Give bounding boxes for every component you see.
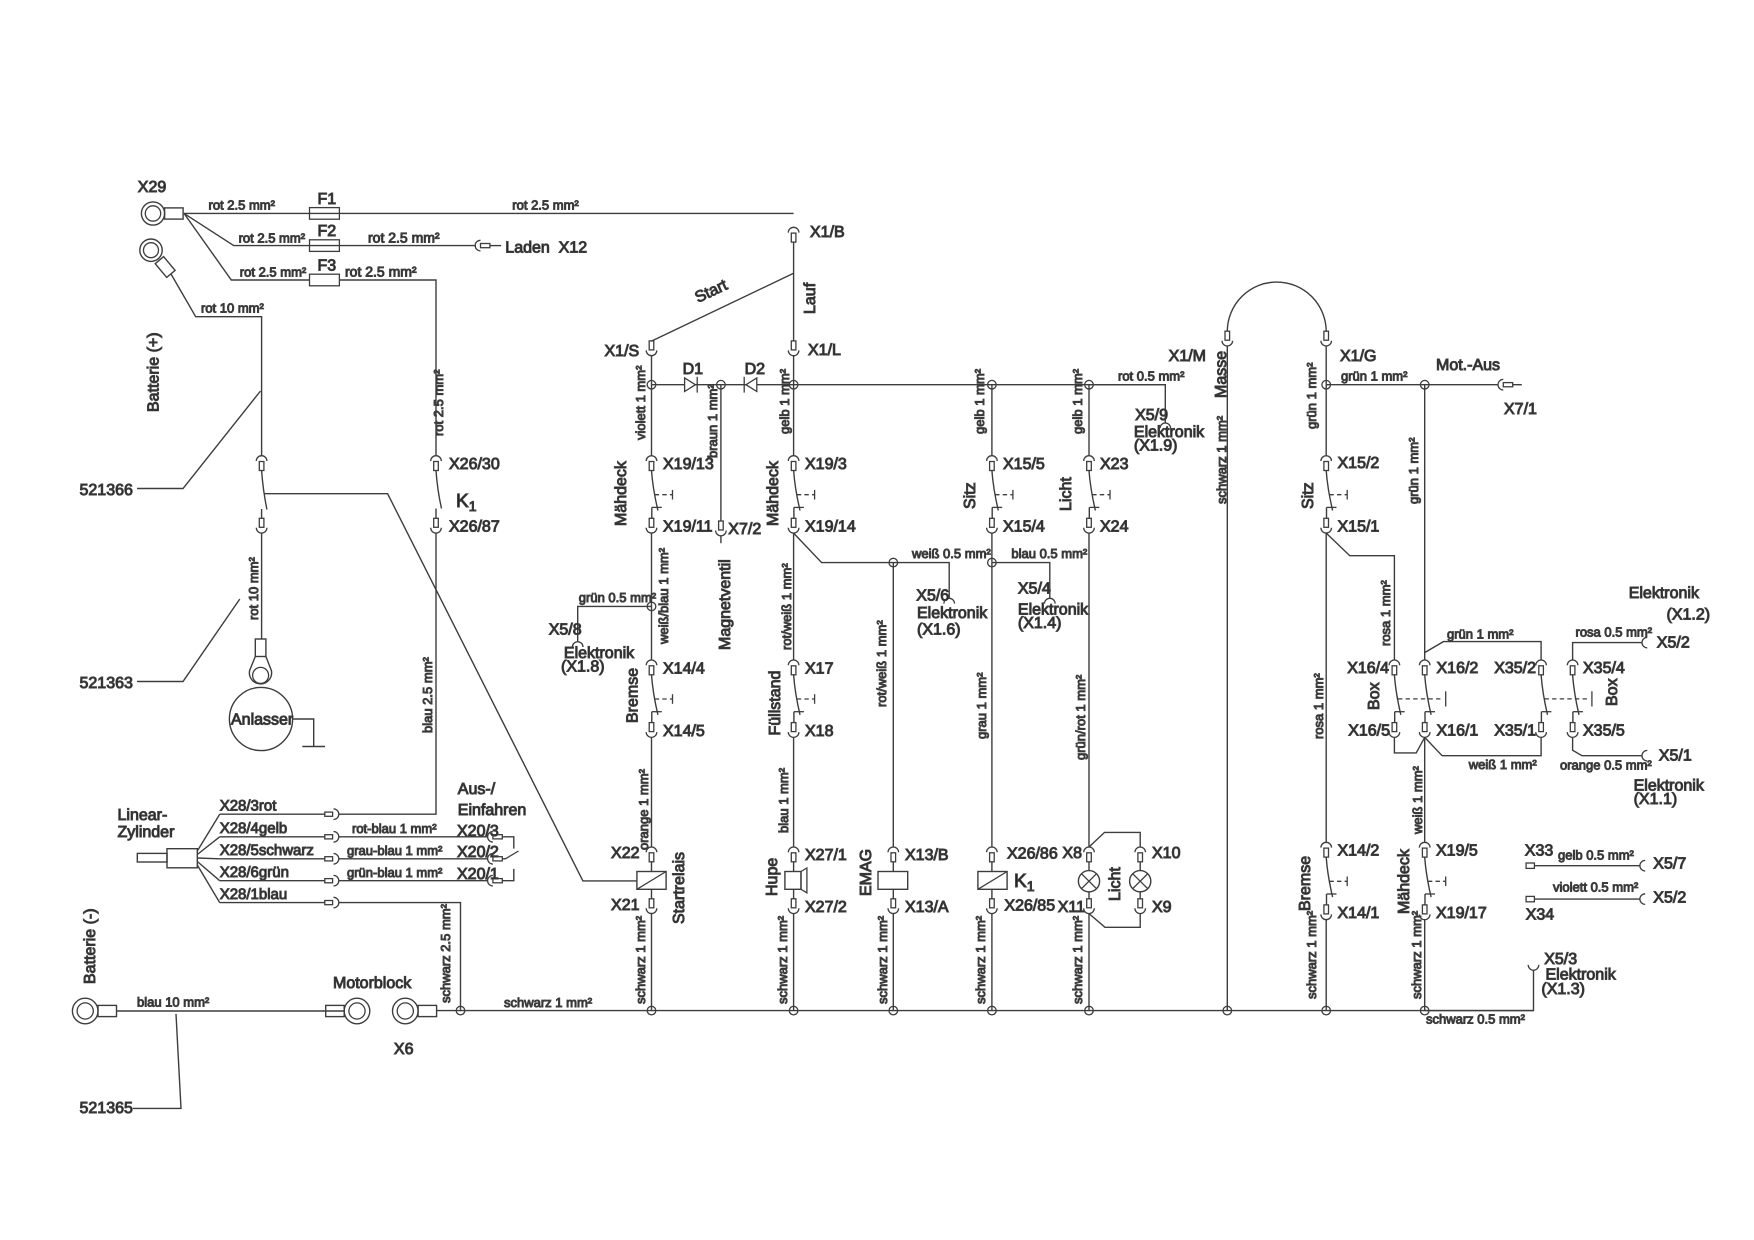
wire schwarz 1 mm2 xyxy=(1088,914,1090,1011)
Linear-Zylinder actuator xyxy=(137,853,167,862)
svg-text:X29: X29 xyxy=(138,179,167,196)
svg-text:rot 10 mm²: rot 10 mm² xyxy=(246,556,261,620)
wire gruen 1 mm2 to X16/2 xyxy=(1424,385,1426,660)
wire gruen 0.5 mm2 to X5/8 xyxy=(578,606,652,641)
svg-text:grün 1 mm²: grün 1 mm² xyxy=(1341,369,1408,384)
svg-text:(X1.3): (X1.3) xyxy=(1541,981,1585,998)
svg-text:Batterie (-): Batterie (-) xyxy=(82,908,99,984)
svg-text:X35/5: X35/5 xyxy=(1583,723,1625,740)
ring terminal X6 xyxy=(393,998,419,1024)
svg-text:X21: X21 xyxy=(611,897,640,914)
terminal X5/2 Elektronik X1.2 xyxy=(1642,637,1647,648)
wire rot/weiss 1 mm2 down to X17 xyxy=(793,533,795,660)
connector X20/3 xyxy=(488,832,493,843)
svg-text:orange 1 mm²: orange 1 mm² xyxy=(636,768,651,850)
lamp X10/X9 xyxy=(1139,862,1141,871)
svg-text:F2: F2 xyxy=(318,223,337,240)
relay contact K1 xyxy=(436,471,442,509)
switch Box X35/4 X35/5 xyxy=(1567,660,1578,665)
svg-text:X1/B: X1/B xyxy=(810,224,845,241)
svg-text:Magnetventil: Magnetventil xyxy=(717,559,734,650)
wire weiss 1 mm2 down to X19/5 xyxy=(1424,737,1426,842)
svg-text:(X1.6): (X1.6) xyxy=(917,622,961,639)
svg-text:Mot.-Aus: Mot.-Aus xyxy=(1436,357,1500,374)
svg-text:X26/30: X26/30 xyxy=(449,456,500,473)
fuse F2 xyxy=(310,240,340,252)
wire and pin X28/4gelb xyxy=(197,837,219,855)
bend X1/M to X1/G xyxy=(1227,282,1326,331)
svg-text:rosa 1 mm²: rosa 1 mm² xyxy=(1378,580,1393,646)
switch Sitz X15/2 X15/1 xyxy=(1321,456,1332,461)
wire X1/L to bus xyxy=(793,356,795,385)
svg-text:Box: Box xyxy=(1604,678,1621,706)
svg-text:X34: X34 xyxy=(1526,907,1555,924)
svg-text:schwarz 1 mm²: schwarz 1 mm² xyxy=(775,915,790,1004)
wire schwarz 1 mm2 xyxy=(793,914,795,1011)
connector X1/L xyxy=(791,341,796,350)
wire gelb 1 mm2 xyxy=(991,385,993,456)
svg-text:X26/86: X26/86 xyxy=(1007,846,1058,863)
wire weiss 1 mm2 to X35/1 xyxy=(1425,737,1541,755)
svg-text:X18: X18 xyxy=(805,723,834,740)
wire X1/G to bus xyxy=(1325,346,1327,385)
svg-text:X19/17: X19/17 xyxy=(1436,905,1487,922)
contact pin below starter switch xyxy=(259,518,264,527)
svg-text:X15/1: X15/1 xyxy=(1338,519,1380,536)
wire gruen 1 mm2 down xyxy=(1325,385,1327,456)
wire X1/S to bus xyxy=(651,356,653,385)
wire weiss/blau 1 mm2 xyxy=(651,533,653,606)
connector X1/S xyxy=(649,341,654,350)
svg-text:X19/5: X19/5 xyxy=(1436,843,1478,860)
svg-text:X20/1: X20/1 xyxy=(457,866,499,883)
svg-text:X16/2: X16/2 xyxy=(1437,660,1479,677)
svg-text:X5/7: X5/7 xyxy=(1653,856,1686,873)
dashed link left Box xyxy=(1398,698,1441,700)
connector X22 xyxy=(646,847,657,852)
svg-text:X14/5: X14/5 xyxy=(663,723,705,740)
lamp branch top wire xyxy=(1089,832,1140,847)
svg-text:521365: 521365 xyxy=(80,1100,133,1117)
svg-text:X28/3rot: X28/3rot xyxy=(220,797,278,814)
svg-text:weiß 1 mm²: weiß 1 mm² xyxy=(1410,765,1425,835)
wire schwarz 1 mm2 xyxy=(1424,920,1426,1011)
svg-text:rot 2.5 mm²: rot 2.5 mm² xyxy=(512,198,579,213)
svg-text:Batterie (+): Batterie (+) xyxy=(146,332,163,412)
junction bus at violett column xyxy=(647,380,656,389)
ground bus schwarz 1 mm2 xyxy=(437,1010,1534,1012)
svg-text:X22: X22 xyxy=(611,845,640,862)
svg-text:rot 0.5 mm²: rot 0.5 mm² xyxy=(1118,369,1185,384)
svg-text:rot-blau 1 mm²: rot-blau 1 mm² xyxy=(352,821,437,836)
switch Maehdeck X19/3 X19/14 xyxy=(788,456,799,461)
svg-text:Mähdeck: Mähdeck xyxy=(765,460,782,526)
wire F3 to X26/30 rot 2.5 mm2 xyxy=(339,280,436,456)
wire schwarz 1 mm2 xyxy=(1325,920,1327,1011)
switch Sitz X15/5 X15/4 xyxy=(987,456,998,461)
svg-text:X14/4: X14/4 xyxy=(663,660,705,677)
terminal X5/6 Elektronik X1.6 xyxy=(944,598,955,603)
wire X28/6 to X20/1 gruen-blau 1 mm2 xyxy=(339,880,488,882)
svg-text:X5/9: X5/9 xyxy=(1135,407,1168,424)
svg-text:gelb 1 mm²: gelb 1 mm² xyxy=(777,368,792,434)
svg-text:X7/1: X7/1 xyxy=(1504,401,1537,418)
svg-text:X19/3: X19/3 xyxy=(805,456,847,473)
svg-text:Licht: Licht xyxy=(1107,867,1124,901)
wire rot 10 mm2 battery to main contact xyxy=(171,274,262,456)
wire rosa 0.5 mm2 to X5/2 xyxy=(1573,643,1642,660)
svg-text:(X1.1): (X1.1) xyxy=(1634,791,1678,808)
svg-text:X20/3: X20/3 xyxy=(457,823,499,840)
wire rosa 1 mm2 down to Bremse xyxy=(1325,533,1327,842)
svg-text:orange 0.5 mm²: orange 0.5 mm² xyxy=(1560,758,1652,773)
connector X10 xyxy=(1135,847,1146,852)
svg-text:blau 2.5 mm²: blau 2.5 mm² xyxy=(420,656,435,733)
svg-text:Zylinder: Zylinder xyxy=(118,824,176,841)
svg-text:X8: X8 xyxy=(1062,845,1082,862)
junction bus braun column xyxy=(717,380,726,389)
svg-text:grün 1 mm²: grün 1 mm² xyxy=(1406,437,1421,504)
svg-text:X13/A: X13/A xyxy=(905,899,949,916)
ring terminal at Anlasser xyxy=(255,639,266,657)
dashed link right Box xyxy=(1545,698,1588,700)
junction ground bus xyxy=(647,1006,656,1015)
svg-text:violett 0.5 mm²: violett 0.5 mm² xyxy=(1553,880,1639,895)
switch Box X35/2 X35/1 xyxy=(1536,660,1547,665)
svg-text:rot 2.5 mm²: rot 2.5 mm² xyxy=(209,198,276,213)
switch Box X16/4 X16/5 xyxy=(1389,660,1400,665)
terminal X12 Laden xyxy=(475,240,480,251)
terminal X5/9 Elektronik X1.9 xyxy=(1160,423,1171,428)
junction weiss 0.5 at EMAG column xyxy=(889,558,898,567)
svg-text:blau 0.5 mm²: blau 0.5 mm² xyxy=(1011,546,1088,561)
wire Start diagonal xyxy=(652,273,794,341)
junction ground bus xyxy=(1420,1006,1429,1015)
wire and pin X28/6grün xyxy=(197,862,219,881)
contact pin above starter switch xyxy=(256,456,267,461)
wire and pin X28/3rot xyxy=(197,814,219,851)
terminal X5/7 xyxy=(1640,860,1645,871)
switch Fuellstand X17 X18 xyxy=(788,660,799,665)
svg-text:X5/6: X5/6 xyxy=(916,588,949,605)
wire rosa 1 mm2 branch to X16/4 xyxy=(1326,533,1394,660)
svg-text:X17: X17 xyxy=(805,660,834,677)
svg-text:X24: X24 xyxy=(1100,519,1129,536)
wire schwarz 1 mm2 xyxy=(892,914,894,1011)
wire blau 10 mm2 xyxy=(117,1010,345,1012)
relay coil Startrelais xyxy=(637,872,666,890)
wire schwarz 1 mm2 to ground bus xyxy=(651,914,653,1011)
svg-text:X26/85: X26/85 xyxy=(1004,898,1055,915)
svg-text:X26/87: X26/87 xyxy=(449,519,500,536)
terminal X34 with wire violett 0.5 mm2 to X5/2 xyxy=(1526,896,1534,901)
wire and pin X28/1blau xyxy=(197,865,219,903)
switch Box X16/2 X16/1 xyxy=(1419,660,1430,665)
svg-text:schwarz 1 mm²: schwarz 1 mm² xyxy=(504,995,593,1010)
terminal X7/1 Mot.-Aus xyxy=(1498,379,1503,390)
connector X27/2 xyxy=(793,889,795,899)
svg-text:521363: 521363 xyxy=(80,675,133,692)
svg-text:schwarz 1 mm²: schwarz 1 mm² xyxy=(875,915,890,1004)
svg-text:grün 0.5 mm²: grün 0.5 mm² xyxy=(579,590,657,605)
wire X28/1 to ground bus schwarz 2.5 mm2 xyxy=(339,903,461,1011)
svg-text:X15/2: X15/2 xyxy=(1338,455,1380,472)
svg-text:X5/8: X5/8 xyxy=(549,622,582,639)
svg-text:schwarz 0.5 mm²: schwarz 0.5 mm² xyxy=(1426,1012,1526,1027)
junction bus Licht column xyxy=(1085,380,1094,389)
connector X7/2 Magnetventil xyxy=(719,521,724,530)
svg-text:schwarz 1 mm²: schwarz 1 mm² xyxy=(1070,915,1085,1004)
svg-text:X27/2: X27/2 xyxy=(805,899,847,916)
wire X28/4 to X20/3 rot-blau 1 mm2 xyxy=(339,836,488,838)
wire tap to Startrelais coil xyxy=(264,494,637,881)
wire rot/weiss 1 mm2 to X13/B xyxy=(892,563,894,847)
svg-text:Mähdeck: Mähdeck xyxy=(613,460,630,526)
connector X21 xyxy=(649,899,654,908)
svg-text:Sitz: Sitz xyxy=(962,482,979,509)
wire X28/5 to X20/2 grau-blau 1 mm2 xyxy=(339,858,488,860)
svg-text:D2: D2 xyxy=(745,361,766,378)
svg-text:Bremse: Bremse xyxy=(1297,856,1314,911)
diode D2 xyxy=(746,378,757,392)
svg-text:X20/2: X20/2 xyxy=(457,844,499,861)
connector X26/30 xyxy=(431,456,442,461)
svg-text:X35/4: X35/4 xyxy=(1583,660,1625,677)
wire blau 2.5 mm2 down to X28/3 xyxy=(339,533,436,814)
junction bus Sitz column xyxy=(988,380,997,389)
svg-text:X13/B: X13/B xyxy=(905,847,949,864)
svg-text:X16/5: X16/5 xyxy=(1348,723,1390,740)
svg-text:rot/weiß 1 mm²: rot/weiß 1 mm² xyxy=(874,620,889,707)
svg-text:blau 10 mm²: blau 10 mm² xyxy=(137,995,210,1010)
svg-text:rot 2.5 mm²: rot 2.5 mm² xyxy=(368,230,440,246)
lamp branch bottom wire xyxy=(1089,914,1140,928)
svg-text:X1/L: X1/L xyxy=(808,342,841,359)
connector X13/B xyxy=(888,847,899,852)
wire braun 1 mm2 xyxy=(720,385,722,521)
wire X16/5 to X16/1 weiss xyxy=(1394,737,1424,753)
junction blau 0.5 branch xyxy=(988,558,997,567)
wire and pin X28/5schwarz xyxy=(197,857,219,860)
fuse F3 xyxy=(310,274,340,286)
svg-text:Startrelais: Startrelais xyxy=(671,852,688,924)
relay coil K1 xyxy=(991,862,993,872)
junction ground bus xyxy=(789,1006,798,1015)
svg-text:grau 1 mm²: grau 1 mm² xyxy=(974,672,989,739)
starter switch blade xyxy=(262,471,267,510)
svg-text:X10: X10 xyxy=(1152,845,1181,862)
connector X1/G xyxy=(1324,331,1329,340)
switch Maehdeck X19/5 X19/17 xyxy=(1419,842,1430,847)
svg-text:grün-blau 1 mm²: grün-blau 1 mm² xyxy=(347,865,443,880)
connector X9 xyxy=(1138,899,1143,908)
svg-text:Lauf: Lauf xyxy=(802,282,819,314)
svg-text:Füllstand: Füllstand xyxy=(767,671,784,736)
speaker Hupe xyxy=(793,862,795,872)
svg-text:rot 2.5 mm²: rot 2.5 mm² xyxy=(239,231,306,246)
wire grau 1 mm2 to K1 coil xyxy=(991,563,993,847)
svg-text:X5/4: X5/4 xyxy=(1018,581,1051,598)
wire rot 2.5 mm2 from X29 to F1 and X1/B xyxy=(184,212,794,214)
svg-text:(X1.9): (X1.9) xyxy=(1134,438,1178,455)
svg-text:gelb 0.5 mm²: gelb 0.5 mm² xyxy=(1558,848,1635,863)
ground at Anlasser xyxy=(293,719,314,747)
wire to Bremse switch xyxy=(651,606,653,660)
svg-text:X19/14: X19/14 xyxy=(805,519,856,536)
svg-text:grün 1 mm²: grün 1 mm² xyxy=(1447,627,1514,642)
svg-text:rot/weiß 1 mm²: rot/weiß 1 mm² xyxy=(779,563,794,650)
wire to X5/3 Elektronik X1.3 xyxy=(1425,970,1534,1010)
connector X20/1 xyxy=(488,875,493,886)
svg-text:X1/G: X1/G xyxy=(1340,348,1376,365)
connector X1/B xyxy=(788,227,799,232)
svg-text:X28/4gelb: X28/4gelb xyxy=(220,820,288,837)
svg-text:X5/1: X5/1 xyxy=(1659,748,1692,765)
wire schwarz 1 mm2 Masse xyxy=(1226,346,1228,1011)
svg-text:Elektronik: Elektronik xyxy=(917,605,988,622)
ring terminal Motorblock xyxy=(344,998,370,1024)
wire blau 1 mm2 xyxy=(793,737,795,847)
svg-text:Linear-: Linear- xyxy=(118,807,168,824)
terminal X5/2 lower xyxy=(1640,894,1645,905)
svg-text:Anlasser: Anlasser xyxy=(231,712,294,729)
connector X1/M xyxy=(1225,331,1230,340)
junction ground bus xyxy=(889,1006,898,1015)
wire schwarz 1 mm2 xyxy=(991,914,993,1011)
svg-text:X33: X33 xyxy=(1525,843,1554,860)
svg-text:X19/11: X19/11 xyxy=(663,519,713,536)
wire X29 to F3 xyxy=(184,213,310,280)
switch Licht X23 X24 xyxy=(1084,456,1095,461)
svg-text:Box: Box xyxy=(1366,682,1383,710)
svg-text:(X1.4): (X1.4) xyxy=(1018,615,1062,632)
wire weiss 0.5 mm2 to X5/6 xyxy=(794,533,950,598)
wire to junction xyxy=(991,533,993,563)
svg-text:X6: X6 xyxy=(394,1041,414,1058)
connector X8 xyxy=(1084,847,1095,852)
connector X13/A xyxy=(892,889,894,899)
svg-text:grün/rot 1 mm²: grün/rot 1 mm² xyxy=(1073,674,1088,760)
terminal X5/3 Elektronik X1.3 xyxy=(1528,965,1539,970)
junction ground bus xyxy=(1322,1006,1331,1015)
svg-text:X15/5: X15/5 xyxy=(1003,456,1045,473)
svg-text:X28/6grün: X28/6grün xyxy=(220,864,289,881)
switch Maehdeck X19/13 X19/11 xyxy=(646,456,657,461)
svg-text:Laden X12: Laden X12 xyxy=(505,240,587,257)
svg-text:X15/4: X15/4 xyxy=(1003,519,1045,536)
svg-text:Aus-/: Aus-/ xyxy=(458,781,496,798)
svg-text:F3: F3 xyxy=(318,258,337,275)
junction ground bus xyxy=(1085,1006,1094,1015)
svg-text:weiß 0.5 mm²: weiß 0.5 mm² xyxy=(911,546,991,561)
svg-text:weiß/blau 1 mm²: weiß/blau 1 mm² xyxy=(656,547,671,645)
connector Batterie plus ring terminal xyxy=(140,239,162,261)
terminal X33 with wire gelb 0.5 mm2 to X5/7 xyxy=(1526,863,1534,868)
Anlasser starter motor xyxy=(229,687,292,750)
svg-text:X28/5schwarz: X28/5schwarz xyxy=(220,842,314,859)
terminal X5/1 Elektronik X1.1 xyxy=(1642,750,1647,761)
svg-text:rot 2.5 mm²: rot 2.5 mm² xyxy=(240,265,307,280)
svg-text:gelb 1 mm²: gelb 1 mm² xyxy=(972,368,987,434)
svg-text:X23: X23 xyxy=(1100,456,1129,473)
svg-text:Mähdeck: Mähdeck xyxy=(1396,848,1413,914)
svg-text:rot 10 mm²: rot 10 mm² xyxy=(201,301,265,316)
connector X26/87 xyxy=(434,518,439,527)
junction gruen branch xyxy=(1420,380,1429,389)
svg-text:Sitz: Sitz xyxy=(1300,482,1317,509)
svg-text:Bremse: Bremse xyxy=(625,668,642,723)
wire gelb 1 mm2 xyxy=(1088,385,1090,456)
wire to Anlasser ring xyxy=(261,533,263,639)
svg-text:schwarz 1 mm²: schwarz 1 mm² xyxy=(633,915,648,1004)
diode D1 xyxy=(685,378,696,392)
svg-text:gelb 1 mm²: gelb 1 mm² xyxy=(1070,368,1085,434)
svg-text:X5/2: X5/2 xyxy=(1653,890,1686,907)
svg-text:EMAG: EMAG xyxy=(858,849,875,896)
terminal X5/4 Elektronik X1.4 xyxy=(1045,598,1056,603)
svg-text:weiß 1 mm²: weiß 1 mm² xyxy=(1468,757,1538,772)
wire X1/B down with Start/Lauf branch xyxy=(793,242,795,341)
wire orange 1 mm2 xyxy=(651,737,653,847)
main bus wire xyxy=(652,384,1166,386)
svg-text:521366: 521366 xyxy=(80,482,133,499)
connector X27/1 xyxy=(788,847,799,852)
svg-text:schwarz 1 mm²: schwarz 1 mm² xyxy=(1409,910,1424,999)
svg-text:X14/2: X14/2 xyxy=(1338,843,1380,860)
connector X26/86 xyxy=(987,847,998,852)
wire gruen/rot 1 mm2 xyxy=(1088,533,1090,847)
switch Bremse X14/2 X14/1 xyxy=(1321,842,1332,847)
svg-text:blau 1 mm²: blau 1 mm² xyxy=(776,767,791,833)
svg-text:X35/2: X35/2 xyxy=(1494,660,1536,677)
ring terminal Batterie minus xyxy=(72,998,98,1024)
junction ground bus at X28/1 xyxy=(456,1006,465,1015)
svg-text:schwarz 2.5 mm²: schwarz 2.5 mm² xyxy=(438,903,453,1003)
svg-text:X9: X9 xyxy=(1152,899,1172,916)
svg-text:braun 1 mm²: braun 1 mm² xyxy=(705,384,720,458)
wire gruen 1 mm2 jog to X35/2 xyxy=(1425,642,1541,660)
wire violett 1 mm2 xyxy=(651,385,653,456)
svg-text:D1: D1 xyxy=(683,361,704,378)
wire orange 0.5 mm2 X35/5 to X5/1 xyxy=(1573,737,1642,755)
svg-text:(X1.2): (X1.2) xyxy=(1667,607,1711,624)
svg-text:X7/2: X7/2 xyxy=(728,521,761,538)
svg-text:X27/1: X27/1 xyxy=(805,847,847,864)
wire gruen 1 mm2 to Mot.-Aus xyxy=(1326,384,1498,386)
lamp X8/X11 xyxy=(1088,862,1090,871)
svg-text:F1: F1 xyxy=(318,191,337,208)
svg-text:(X1.8): (X1.8) xyxy=(561,659,605,676)
svg-text:X28/1blau: X28/1blau xyxy=(220,886,288,903)
connector X29 battery ring terminal xyxy=(141,202,164,225)
svg-text:X5/2: X5/2 xyxy=(1657,635,1690,652)
connector X11 xyxy=(1087,899,1092,908)
svg-text:X1/M: X1/M xyxy=(1169,348,1206,365)
svg-text:grau-blau 1 mm²: grau-blau 1 mm² xyxy=(347,843,443,858)
switch Bremse X14/4 X14/5 xyxy=(646,660,657,665)
junction ground bus xyxy=(1223,1006,1232,1015)
connector X20/2 with switch blade xyxy=(488,854,493,865)
svg-text:rot 2.5 mm²: rot 2.5 mm² xyxy=(431,369,446,436)
wire X29 to F2 Laden xyxy=(184,213,475,245)
terminal X5/8 Elektronik X1.8 xyxy=(572,642,583,647)
svg-text:rosa 0.5 mm²: rosa 0.5 mm² xyxy=(1576,625,1653,640)
svg-text:X35/1: X35/1 xyxy=(1494,723,1536,740)
svg-text:grün 1 mm²: grün 1 mm² xyxy=(1304,362,1319,429)
svg-text:X14/1: X14/1 xyxy=(1338,905,1380,922)
junction ground bus xyxy=(988,1006,997,1015)
svg-text:X16/4: X16/4 xyxy=(1347,660,1389,677)
